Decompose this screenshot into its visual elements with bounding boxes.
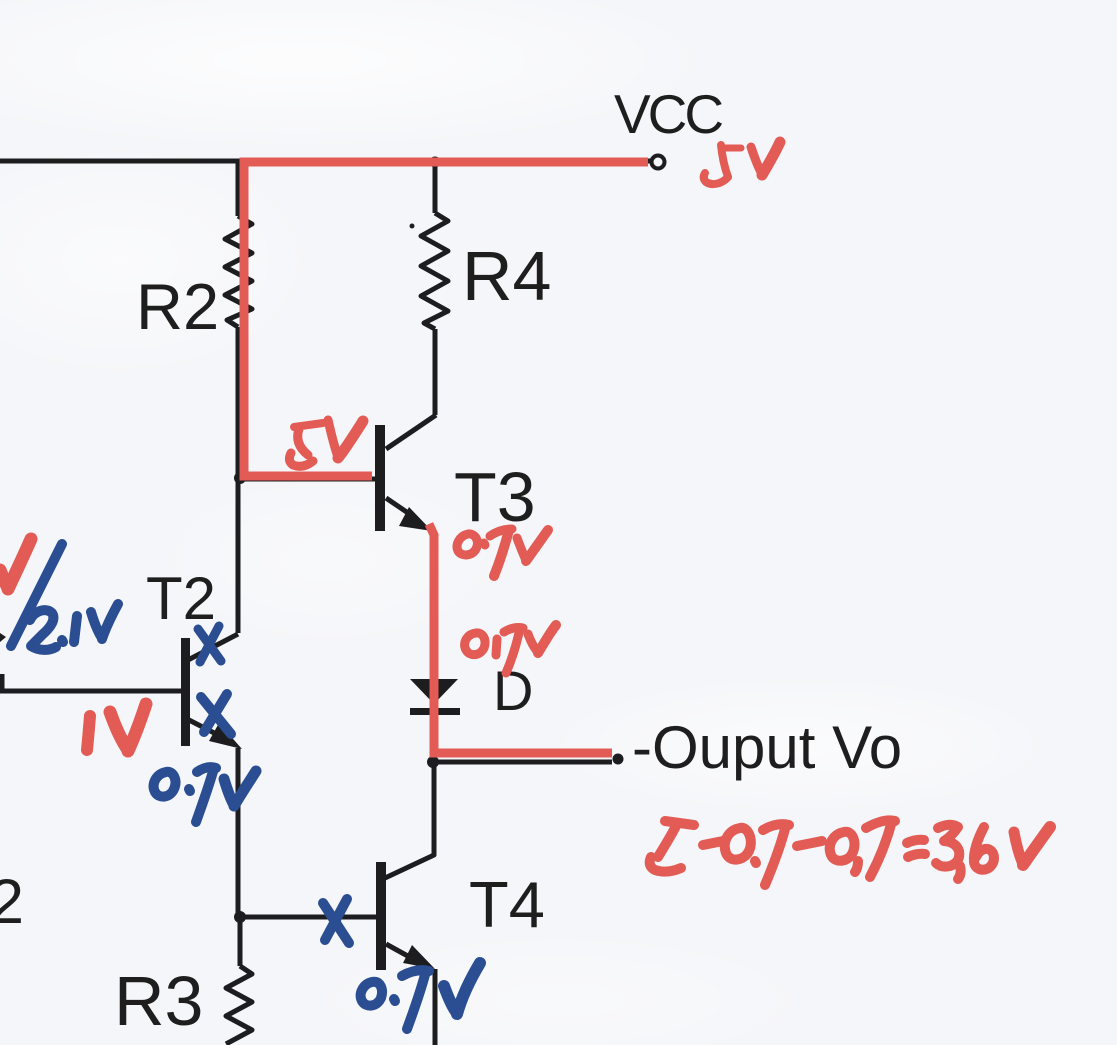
svg-text:R4: R4 bbox=[462, 237, 551, 315]
svg-text:R3: R3 bbox=[114, 962, 203, 1040]
svg-text:R2: R2 bbox=[136, 270, 219, 343]
svg-text:T3: T3 bbox=[454, 458, 536, 536]
svg-text:VCC: VCC bbox=[614, 83, 722, 145]
svg-text:D: D bbox=[493, 659, 533, 722]
svg-text:2: 2 bbox=[0, 867, 24, 937]
svg-text:-Ouput Vo: -Ouput Vo bbox=[632, 714, 902, 781]
svg-text:T4: T4 bbox=[469, 868, 545, 941]
svg-text:T2: T2 bbox=[146, 565, 216, 632]
